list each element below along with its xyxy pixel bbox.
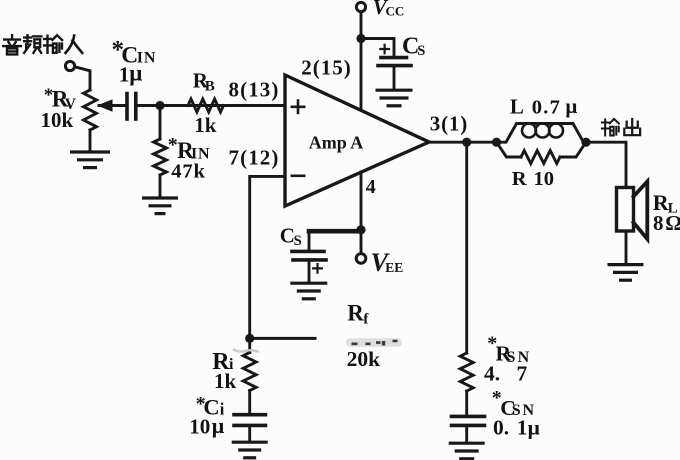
svg-text:8(13): 8(13) — [229, 77, 280, 101]
svg-text:μ: μ — [528, 415, 540, 439]
svg-text:S: S — [294, 233, 302, 249]
svg-text:0.7: 0.7 — [532, 96, 561, 118]
svg-text:0.: 0. — [493, 416, 509, 440]
svg-text:B: B — [205, 79, 215, 95]
svg-text:S: S — [417, 43, 425, 59]
svg-text:47k: 47k — [171, 160, 206, 182]
svg-text:4.: 4. — [484, 361, 500, 385]
svg-text:R: R — [347, 301, 364, 326]
svg-text:CC: CC — [386, 4, 405, 19]
svg-text:1k: 1k — [214, 369, 237, 393]
svg-text:10: 10 — [534, 168, 555, 190]
svg-text:3(1): 3(1) — [430, 112, 468, 136]
svg-text:μ: μ — [129, 61, 142, 86]
svg-text:EE: EE — [385, 260, 403, 275]
svg-text:1: 1 — [119, 62, 130, 86]
svg-text:10: 10 — [189, 415, 210, 439]
svg-text:Ω: Ω — [665, 211, 680, 235]
svg-text:μ: μ — [212, 413, 225, 438]
svg-text:2(15): 2(15) — [301, 56, 352, 80]
svg-text:1k: 1k — [194, 113, 217, 137]
svg-text:7(12): 7(12) — [229, 146, 280, 170]
svg-text:10k: 10k — [41, 108, 74, 132]
svg-text:μ: μ — [565, 94, 577, 118]
svg-text:7: 7 — [517, 361, 528, 385]
svg-text:20k: 20k — [347, 347, 381, 371]
svg-text:Amp A: Amp A — [309, 133, 364, 153]
svg-text:L: L — [510, 94, 524, 118]
svg-text:4: 4 — [366, 176, 376, 198]
svg-text:1: 1 — [517, 416, 528, 440]
svg-text:8: 8 — [653, 211, 664, 235]
svg-text:R: R — [512, 168, 527, 190]
